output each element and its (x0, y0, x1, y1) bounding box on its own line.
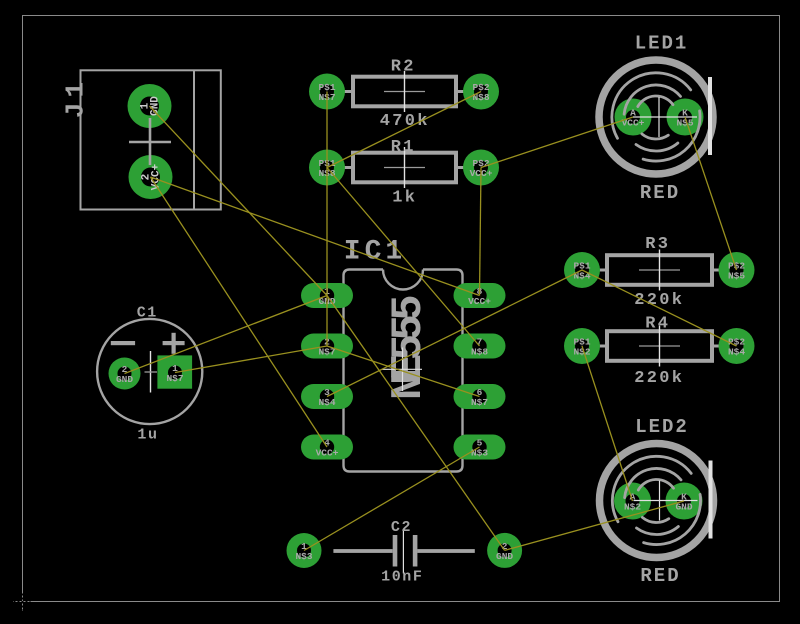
connector J1 outline (81, 70, 221, 209)
pad IC1 pin 6 (454, 384, 506, 409)
svg-text:C1: C1 (137, 305, 158, 322)
ratsnest wire N$2 R4.1 to LED2 anode (582, 346, 633, 501)
pad R2.1 (309, 74, 345, 110)
IC1 origin cross (382, 348, 422, 392)
svg-text:N$4: N$4 (318, 397, 335, 408)
svg-text:1k: 1k (392, 189, 417, 208)
LED2 outline ring (600, 444, 714, 558)
pad C2.1 N$3 (287, 533, 322, 568)
ratsnest wire N$3 C2.1 to IC1 pin5 (304, 447, 480, 551)
pad R3.1 (564, 252, 600, 288)
svg-text:GND: GND (496, 551, 513, 562)
ratsnest wire VCC J1.2 to IC1 pin4 (151, 177, 328, 447)
LED2 origin cross (634, 481, 698, 521)
ratsnest wire N$8 R1.1 to R2.2 (327, 92, 481, 168)
J1 origin cross (129, 141, 171, 144)
svg-text:NE555: NE555 (384, 296, 434, 400)
ratsnest wire GND C1.2 to IC1 pin1 (125, 296, 328, 374)
svg-text:IC1: IC1 (344, 237, 406, 268)
ratsnest wire GND C2.2 to LED2 cathode (505, 501, 684, 550)
svg-text:220k: 220k (634, 291, 684, 310)
ratsnest wire GND C2.2 to IC1 pin1 (327, 296, 505, 551)
ratsnest wire N$4 R3.1 to IC1 pin3 (327, 270, 582, 397)
LED1 inner arcs (612, 73, 700, 161)
svg-text:220k: 220k (634, 369, 684, 388)
pad LED1 anode (615, 99, 652, 136)
svg-text:1u: 1u (137, 427, 158, 444)
svg-text:RED: RED (640, 565, 680, 587)
ratsnest wire N$7 C1.1 to IC1 pin2 (175, 346, 327, 373)
C2 origin cross (402, 530, 404, 574)
pad R4.1 (564, 328, 600, 364)
pad C1.1 N$7 square (157, 355, 192, 388)
svg-text:N$3: N$3 (295, 551, 312, 562)
pad IC1 pin 3 (301, 384, 353, 409)
R2 origin cross (384, 91, 425, 93)
pad IC1 pin 2 (301, 334, 353, 359)
svg-text:VCC+: VCC+ (468, 296, 491, 307)
R3 origin cross (639, 269, 680, 271)
pad LED2 cathode (666, 483, 703, 520)
ratsnest wire GND J1.1 to IC1 pin1 (150, 106, 328, 296)
R4 origin cross (639, 345, 680, 347)
LED1 origin cross (633, 97, 697, 137)
svg-text:R1: R1 (391, 138, 416, 157)
pad IC1 pin 7 (454, 334, 506, 359)
ratsnest wire VCC R1.2 to IC1 pin8 (480, 168, 482, 296)
svg-text:R3: R3 (645, 235, 670, 254)
pad LED1 cathode (667, 99, 704, 136)
svg-text:N$4: N$4 (728, 347, 745, 358)
resistor R2 body (353, 77, 456, 107)
ratsnest wire N$7 R2.1 to IC1 pin2 (326, 92, 328, 347)
pad R4.2 (719, 328, 755, 364)
pad R1.2 (463, 150, 499, 186)
IC U1 body outline with notch (344, 270, 463, 472)
pad IC1 pin 5 (454, 435, 506, 460)
svg-text:RED: RED (640, 182, 680, 204)
svg-text:LED1: LED1 (635, 33, 689, 55)
pad R3.2 (719, 252, 755, 288)
LED1 outline ring (599, 60, 713, 174)
svg-text:10nF: 10nF (381, 569, 423, 586)
ratsnest wire N$8 R1.1 to IC1 pin7 (327, 168, 480, 347)
svg-text:N$8: N$8 (471, 347, 488, 358)
ratsnest wire N$4 R3.1 to R4.2 (582, 270, 737, 346)
resistor R4 body (607, 331, 712, 361)
pad IC1 pin 8 (454, 283, 506, 308)
svg-text:VCC+: VCC+ (316, 448, 339, 459)
svg-text:R2: R2 (391, 58, 416, 77)
LED2 inner arcs (612, 456, 700, 544)
capacitor C1 outline circle (97, 319, 202, 424)
ratsnest wire VCC R1.2 to LED1 anode (481, 117, 633, 168)
pad LED2 anode (614, 483, 651, 520)
svg-text:N$8: N$8 (472, 92, 489, 103)
R1 origin cross (384, 167, 425, 169)
svg-text:C2: C2 (391, 519, 412, 536)
pad J1.1 GND (128, 84, 172, 128)
pad R2.2 (463, 74, 499, 110)
svg-text:N$7: N$7 (166, 373, 183, 384)
C1 plus mark (163, 333, 185, 354)
frame origin dashes bottom-left (14, 594, 31, 611)
ratsnest wire N$7 IC1 pin2 to pin6 (327, 346, 480, 397)
pad IC1 pin 1 (301, 283, 353, 308)
ratsnest wire N$5 LED1 cathode to R3.2 (685, 117, 737, 270)
C1 minus mark (111, 341, 135, 345)
capacitor C2 symbol (333, 535, 474, 567)
pad C1.2 GND (109, 358, 141, 390)
LED2 flat edge (709, 461, 713, 539)
svg-text:J1: J1 (61, 77, 91, 118)
pad C2.2 GND (487, 533, 522, 568)
pad J1.2 VCC+ (129, 155, 173, 199)
J1 center line (149, 118, 152, 165)
svg-text:R4: R4 (645, 315, 670, 334)
svg-text:N$2: N$2 (624, 502, 641, 513)
resistor R3 body (607, 255, 712, 285)
svg-text:N$4: N$4 (573, 271, 590, 282)
pad IC1 pin 4 (301, 435, 353, 460)
resistor R1 body (353, 153, 456, 183)
LED1 flat edge (708, 77, 712, 155)
pad R1.1 (309, 150, 345, 186)
svg-text:N$5: N$5 (728, 271, 745, 282)
svg-text:N$7: N$7 (471, 397, 488, 408)
svg-text:N$3: N$3 (471, 448, 488, 459)
C1 origin cross (150, 351, 152, 393)
svg-text:GND: GND (116, 374, 133, 385)
ratsnest wire VCC J1.2 to IC1 pin8 (151, 177, 480, 296)
svg-text:LED2: LED2 (635, 416, 689, 438)
svg-text:470k: 470k (380, 112, 430, 131)
